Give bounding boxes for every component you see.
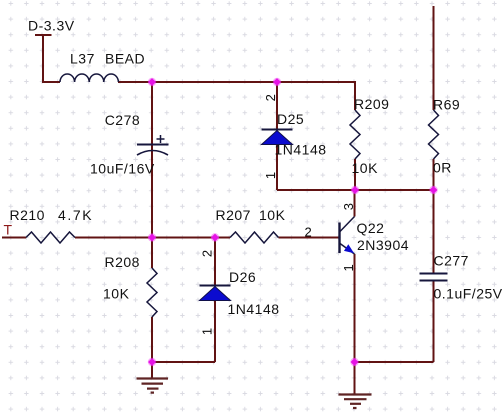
svg-text:10uF/16V: 10uF/16V bbox=[90, 160, 155, 176]
svg-text:1N4148: 1N4148 bbox=[275, 142, 327, 158]
svg-text:R208: R208 bbox=[105, 254, 140, 270]
svg-text:3: 3 bbox=[341, 203, 356, 210]
svg-text:1: 1 bbox=[341, 264, 356, 271]
svg-text:C277: C277 bbox=[434, 253, 469, 269]
svg-text:R209: R209 bbox=[354, 96, 389, 112]
svg-text:4.7K: 4.7K bbox=[58, 207, 93, 223]
svg-text:2: 2 bbox=[200, 250, 215, 257]
svg-text:2: 2 bbox=[305, 225, 312, 240]
svg-text:10K: 10K bbox=[259, 207, 286, 223]
svg-text:L37: L37 bbox=[70, 51, 95, 67]
svg-text:BEAD: BEAD bbox=[105, 51, 145, 67]
svg-text:D-3.3V: D-3.3V bbox=[28, 18, 75, 34]
svg-text:R207: R207 bbox=[216, 207, 251, 223]
svg-text:0R: 0R bbox=[433, 160, 452, 176]
svg-text:R210: R210 bbox=[10, 207, 45, 223]
svg-text:R69: R69 bbox=[433, 97, 460, 113]
svg-text:10K: 10K bbox=[352, 160, 379, 176]
svg-text:10K: 10K bbox=[103, 286, 130, 302]
svg-text:C278: C278 bbox=[105, 112, 140, 128]
svg-text:D26: D26 bbox=[229, 269, 256, 285]
svg-text:T: T bbox=[4, 222, 13, 238]
svg-text:2N3904: 2N3904 bbox=[357, 237, 409, 253]
svg-text:0.1uF/25V: 0.1uF/25V bbox=[434, 286, 503, 302]
svg-text:2: 2 bbox=[263, 94, 278, 101]
svg-text:D25: D25 bbox=[277, 111, 304, 127]
svg-text:1: 1 bbox=[263, 172, 278, 179]
svg-text:Q22: Q22 bbox=[357, 220, 385, 236]
svg-text:1N4148: 1N4148 bbox=[228, 301, 280, 317]
svg-text:1: 1 bbox=[200, 328, 215, 335]
